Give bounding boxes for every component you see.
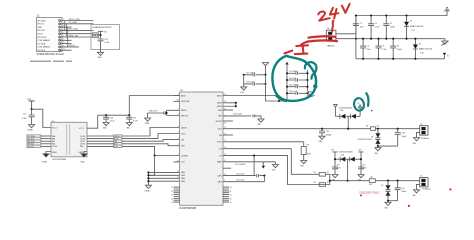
svg-text:9: 9	[178, 154, 179, 156]
svg-text:8: 8	[178, 126, 179, 128]
power symbol circled	[358, 103, 362, 116]
wire iso VCC2 to rail	[87, 115, 98, 128]
svg-text:5V0: 5V0	[331, 150, 334, 152]
wire DIN to DAC	[122, 140, 180, 142]
ground under C30	[319, 136, 325, 143]
wire left vertical to lower rail	[355, 39, 357, 59]
svg-text:R6: R6	[307, 145, 309, 147]
connector J3	[420, 176, 431, 191]
svg-text:C11 0.068uF: C11 0.068uF	[289, 85, 299, 87]
wire J1 pin1 net GPIO1_CNC	[61, 19, 94, 21]
svg-text:D1: D1	[410, 21, 412, 23]
node IOUT C18 tap	[397, 128, 399, 130]
DAC ground bus	[147, 171, 179, 185]
wire loop to cap bank	[266, 75, 288, 101]
node rail2 left	[355, 38, 357, 40]
svg-text:C28 0.1uF: C28 0.1uF	[149, 111, 159, 113]
svg-text:28: 28	[171, 198, 173, 200]
annotation red dot b	[449, 188, 451, 190]
svg-text:VCC2: VCC2	[79, 128, 84, 130]
wire HART row	[223, 162, 275, 169]
svg-text:CAP1: CAP1	[217, 174, 222, 177]
capacitor C14 between CAP1 CAP2	[223, 156, 265, 178]
svg-text:C17: C17	[23, 114, 26, 116]
wire J1 pin3 stub	[61, 26, 72, 28]
svg-text:32: 32	[230, 195, 232, 197]
svg-text:CS_GRD: CS_GRD	[69, 22, 78, 24]
capacitor C5 0.1uF	[376, 38, 387, 60]
ground top of C9 loop	[263, 63, 269, 75]
capacitor C11 0.068uF	[286, 85, 309, 89]
resistor R6 10.0k	[301, 142, 311, 161]
wire SDO to DAC	[122, 144, 180, 146]
svg-text:AVSS: AVSS	[217, 105, 222, 108]
svg-text:DAC8760IPWR: DAC8760IPWR	[180, 207, 197, 210]
svg-text:34: 34	[230, 202, 232, 204]
wire J3 pin2 to ground	[417, 184, 420, 189]
capacitor C4 10uF	[360, 38, 371, 60]
wire D8 to C18 bottom	[377, 145, 398, 147]
wire DAC AVDD right	[223, 96, 279, 102]
node IOUT TVS tap	[377, 128, 379, 130]
ground VSS under C29	[240, 87, 246, 94]
power arrow 5V0 cap bank	[285, 62, 288, 67]
annotation red dot c	[408, 205, 410, 207]
ground VSS3 under C28	[145, 118, 151, 125]
DAC NC pin numbers left	[171, 187, 173, 204]
svg-text:C29 0.1uF: C29 0.1uF	[246, 82, 255, 84]
svg-text:V1: V1	[447, 55, 449, 57]
wire IFB stub	[223, 134, 233, 136]
net label SPI SDI	[27, 143, 51, 146]
annotation teal circle around caps	[272, 56, 316, 101]
net label I2C SCL	[27, 137, 51, 140]
svg-text:0.1uF: 0.1uF	[363, 168, 367, 170]
node AVDD joins	[278, 100, 280, 102]
capacitor C26 0.1uF	[103, 115, 115, 122]
annotation teal tick	[366, 93, 368, 106]
digital isolator U3 ISO7842	[51, 121, 87, 161]
wire iso OUTA to labels	[87, 136, 114, 146]
svg-text:TBlkM2x1: TBlkM2x1	[327, 45, 335, 47]
svg-text:C4: C4	[367, 46, 369, 48]
capacitor C27 0.1uF	[126, 115, 138, 122]
ground DGND iso left	[42, 152, 51, 164]
svg-text:33: 33	[230, 198, 232, 200]
svg-text:27: 27	[171, 195, 173, 197]
connector J1	[37, 15, 66, 56]
svg-text:GND: GND	[181, 172, 186, 174]
svg-text:J3: J3	[420, 176, 422, 178]
connector J4 24V terminal block	[326, 28, 336, 47]
capacitor C24 on left rail	[332, 165, 341, 175]
node output TVS tap	[387, 180, 389, 182]
svg-text:DVDD-EN: DVDD-EN	[181, 101, 190, 103]
svg-text:26: 26	[171, 191, 173, 193]
wire 5V0 to iso VCC1	[32, 109, 51, 127]
svg-text:5V0: 5V0	[104, 31, 107, 33]
svg-text:C21: C21	[104, 39, 107, 41]
power 5V0 left	[27, 99, 34, 109]
svg-text:VS5: VS5	[359, 150, 362, 152]
node merge	[329, 180, 331, 182]
svg-text:GND: GND	[98, 57, 103, 59]
svg-text:BOOST: BOOST	[216, 121, 223, 123]
svg-text:SPI2_RN5: SPI2_RN5	[69, 29, 79, 31]
svg-text:SDO: SDO	[181, 146, 185, 148]
ghost annotation row	[30, 61, 72, 63]
diode D1 SMBJ7.5A	[404, 14, 424, 39]
svg-text:CTRL MEAS5: CTRL MEAS5	[37, 39, 50, 42]
wire cap bank left rail	[286, 67, 288, 101]
svg-text:5: 5	[178, 144, 179, 146]
wire -VS to R7 line	[223, 156, 330, 185]
svg-text:18: 18	[224, 122, 226, 124]
resistor R4 100	[366, 125, 379, 130]
svg-text:C6: C6	[397, 46, 399, 48]
capacitor C3 10uF	[353, 14, 364, 38]
wire BOOST stub	[223, 120, 233, 122]
DAC NC stubs left	[174, 187, 180, 202]
wire 24V rail top	[356, 11, 447, 16]
svg-text:SMBJ7.5A-13-F: SMBJ7.5A-13-F	[410, 25, 424, 28]
svg-text:PCBblocks: PCBblocks	[423, 189, 431, 191]
svg-text:15: 15	[327, 172, 329, 174]
ground DGND left	[27, 125, 34, 132]
svg-text:C14 0.1uF: C14 0.1uF	[236, 173, 245, 175]
svg-text:0.1uF: 0.1uF	[337, 168, 341, 170]
svg-text:GND: GND	[181, 181, 186, 183]
svg-text:GND: GND	[181, 178, 186, 180]
node filter output	[99, 34, 101, 36]
wire LATCH to DAC	[122, 128, 180, 137]
ground under D9	[385, 201, 392, 210]
svg-text:I2C SCK: I2C SCK	[37, 50, 45, 52]
DAC left pin stubs	[174, 96, 180, 162]
wire lower rail	[356, 58, 445, 60]
svg-text:100pF: 100pF	[401, 191, 406, 193]
svg-text:GND1: GND1	[52, 152, 57, 154]
DAC pin numbers right	[224, 94, 226, 182]
capacitor C17 0.1uF	[22, 109, 35, 124]
svg-text:SUPER MINI DEC Pinout2: SUPER MINI DEC Pinout2	[37, 53, 65, 56]
svg-text:C10 0.1uF: C10 0.1uF	[289, 91, 297, 93]
svg-text:SPI CLK: SPI CLK	[37, 30, 45, 32]
wire J1 pin4 net SPI2_RN5	[61, 29, 94, 31]
svg-text:BLNFMNGM72RX1D: BLNFMNGM72RX1D	[93, 27, 113, 29]
svg-text:DGND: DGND	[42, 161, 48, 163]
ground below C26	[103, 123, 109, 130]
svg-text:C19: C19	[401, 188, 404, 190]
node -VS branch	[253, 155, 255, 157]
filter module FB1 BLNFMNGM72RX1D	[91, 25, 120, 50]
svg-text:D9: D9	[381, 185, 383, 187]
svg-text:10uF: 10uF	[360, 27, 364, 29]
wire AVSS pair	[223, 102, 237, 108]
svg-text:25: 25	[171, 187, 173, 189]
connector J2	[420, 124, 430, 140]
wire CLR pulldown	[148, 156, 154, 176]
ground DGND under bus	[145, 185, 152, 192]
svg-text:29: 29	[171, 202, 173, 204]
DAC right pin names	[216, 94, 223, 183]
wire GND stub	[223, 109, 233, 111]
protection diode pair D5 D6	[331, 150, 363, 182]
wire J1 pin10 stub	[61, 49, 72, 51]
svg-text:0.1uF: 0.1uF	[382, 49, 386, 51]
svg-text:C8 0.1uF: C8 0.1uF	[289, 78, 296, 80]
wire J1 pin9 net GPIO5	[61, 45, 80, 47]
capacitor C7 0.068uF	[286, 71, 309, 75]
wire cap bank right rail	[307, 70, 309, 91]
svg-text:0.1uF: 0.1uF	[375, 27, 379, 29]
capacitor C1 0.1uF	[368, 14, 379, 39]
svg-text:5V: 5V	[358, 103, 360, 105]
svg-text:SPI CS: SPI CS	[37, 24, 44, 26]
chassis ground cap bank	[306, 91, 315, 98]
capacitor C19 100pF	[395, 181, 406, 201]
wire J2 pin2 to ground	[417, 133, 420, 138]
wire AVDD rail	[98, 96, 180, 116]
svg-text:SMBJ7.5A-13-F: SMBJ7.5A-13-F	[419, 48, 433, 51]
capacitor C25 on right rail	[358, 165, 367, 175]
svg-text:30: 30	[230, 187, 232, 189]
net label SPI CLK	[27, 140, 51, 143]
diode D2 SMBJ7.5A	[413, 38, 433, 60]
svg-text:DGND: DGND	[27, 130, 33, 132]
svg-text:LATCH: LATCH	[181, 126, 187, 129]
svg-text:GND: GND	[37, 27, 42, 29]
svg-text:AVSS: AVSS	[217, 102, 222, 105]
node IOUT C30	[321, 128, 323, 130]
TVS diode D8 CDSOD323	[358, 129, 381, 146]
svg-text:49.9: 49.9	[369, 184, 372, 186]
wire J1 pin7 stub	[61, 39, 72, 41]
wire IOUT long	[223, 128, 420, 130]
svg-text:SPI VOUT: SPI VOUT	[37, 37, 47, 39]
svg-text:C27: C27	[133, 117, 136, 119]
svg-text:C12 0.068uF: C12 0.068uF	[235, 164, 246, 166]
svg-text:GND: GND	[181, 175, 186, 177]
svg-text:CDSOD4148-0805: CDSOD4148-0805	[339, 152, 353, 154]
annotation red 24V	[318, 4, 349, 21]
svg-text:REFOUT: REFOUT	[181, 115, 189, 117]
capacitor C21 0.1uF	[98, 35, 110, 52]
svg-text:0.1uF: 0.1uF	[104, 42, 110, 44]
svg-text:2: 2	[178, 94, 179, 96]
svg-text:R8: R8	[370, 177, 372, 179]
annotation red dot a	[360, 194, 362, 196]
svg-text:C30: C30	[326, 131, 329, 133]
svg-text:C9 0.068uF: C9 0.068uF	[246, 73, 256, 75]
ground HART	[272, 165, 279, 172]
svg-text:D2: D2	[419, 43, 421, 45]
svg-text:VSS3: VSS3	[145, 123, 149, 125]
svg-text:10uF: 10uF	[367, 49, 371, 51]
ground under R6	[300, 161, 307, 168]
wire CLR to DAC	[122, 146, 180, 155]
svg-text:SPI CS: SPI CS	[28, 146, 35, 148]
svg-text:C7 0.068uF: C7 0.068uF	[289, 71, 298, 73]
svg-text:J2: J2	[420, 124, 422, 126]
capacitor C8 0.1uF	[286, 78, 309, 82]
svg-text:C2: C2	[390, 23, 392, 25]
net label I2C SDA	[27, 135, 51, 138]
svg-text:15: 15	[327, 182, 329, 184]
annotation red underline strokes	[301, 36, 337, 45]
svg-text:C24: C24	[337, 165, 340, 167]
power 5V0 at filter	[98, 31, 107, 35]
capacitor C9 0.068uF	[243, 73, 267, 77]
svg-text:CDSOD323-T08LC: CDSOD323-T08LC	[358, 139, 373, 141]
annotation teal question mark	[305, 62, 317, 87]
wire J1 pin8 stub	[61, 43, 72, 45]
svg-text:VOUT: VOUT	[37, 34, 43, 36]
node CLR vertical	[154, 154, 156, 156]
svg-text:AVDD: AVDD	[181, 94, 187, 97]
svg-text:SPI CNS: SPI CNS	[37, 20, 46, 22]
svg-text:10.0k: 10.0k	[307, 153, 311, 155]
svg-text:CDSOD4148-0805: CDSOD4148-0805	[339, 107, 352, 109]
wire +VS horizontal	[223, 148, 291, 150]
svg-text:23: 23	[177, 100, 179, 102]
wire J1 pin6 net SPIN_CN5	[61, 35, 93, 37]
wire J4 pin2 into mid rail	[336, 38, 445, 40]
svg-text:REFIN: REFIN	[181, 110, 187, 112]
svg-text:PCBblocks: PCBblocks	[421, 138, 429, 140]
power arrow on lower rail	[443, 53, 449, 59]
svg-text:6: 6	[178, 138, 179, 140]
ground below C27	[126, 123, 132, 130]
wire VOUT	[223, 141, 304, 143]
DAC NC stubs right	[223, 187, 229, 202]
svg-text:CDSOD323-T08LC: CDSOD323-T08LC	[359, 192, 380, 195]
svg-text:ISO7842DWW: ISO7842DWW	[53, 159, 67, 161]
wire CAPA stub	[223, 167, 231, 169]
wire J4 pin1 to rail	[336, 16, 356, 34]
svg-text:100pF: 100pF	[390, 27, 395, 29]
svg-text:10: 10	[177, 160, 179, 162]
svg-text:0.1uF: 0.1uF	[22, 118, 28, 120]
DAC NC pin numbers right	[230, 187, 232, 204]
TVS diode D9 CDSOD323	[381, 181, 390, 201]
ground under C16	[257, 119, 264, 126]
DAC left pin names	[181, 94, 190, 183]
net label SPI CS	[27, 145, 51, 148]
capacitor C30 1000pF	[319, 129, 331, 137]
svg-text:D8: D8	[371, 136, 373, 138]
ground left rail	[332, 175, 338, 182]
svg-text:GND: GND	[81, 161, 86, 163]
wire J1 pin5 VOUT to filter	[61, 33, 93, 35]
annotation red ground mark	[285, 45, 309, 54]
capacitor C2 100pF	[383, 14, 394, 39]
node 5V0 junction	[31, 108, 33, 110]
node rail junctions	[105, 114, 107, 116]
DAC pin numbers left	[177, 94, 179, 179]
capacitor C6 100pF	[390, 38, 401, 60]
capacitor C28 0.1uF at REFIN	[148, 110, 180, 118]
wire J1 pin2 net CS_GRD	[61, 22, 94, 24]
wire D9 to C19 bottom	[387, 200, 398, 202]
annotation teal small circle	[353, 97, 365, 111]
svg-text:C5: C5	[382, 46, 384, 48]
chassis ground mid rail right	[441, 39, 448, 46]
svg-text:100pF: 100pF	[401, 136, 406, 138]
wire +VS to R5 line	[291, 149, 330, 181]
capacitor C10 0.1uF	[286, 91, 309, 95]
capacitor C15 on CAP2	[223, 176, 264, 182]
svg-text:100pF: 100pF	[397, 49, 402, 51]
resistor R8 49.9	[369, 177, 375, 186]
svg-text:VSS: VSS	[240, 92, 243, 94]
svg-text:R7: R7	[314, 182, 316, 184]
svg-text:R4: R4	[366, 125, 368, 127]
svg-text:C26: C26	[110, 117, 113, 119]
wire clamp tap to IOUT	[347, 116, 349, 129]
svg-text:VCC1: VCC1	[52, 127, 57, 129]
svg-text:31: 31	[230, 191, 232, 193]
wire SCLK to DAC	[122, 134, 180, 139]
resistor R7 15	[314, 182, 329, 186]
resistor R5 15	[314, 172, 329, 176]
ground J3	[412, 190, 419, 197]
svg-text:C25: C25	[363, 165, 366, 167]
ground right rail	[358, 175, 364, 182]
capacitor C29 0.1uF	[244, 75, 267, 87]
svg-text:DGND: DGND	[145, 190, 151, 192]
ground GND iso right	[81, 152, 88, 164]
net label boxes right of iso	[114, 135, 122, 149]
svg-text:100: 100	[376, 125, 379, 127]
svg-text:GND: GND	[218, 110, 223, 112]
ground under D8	[374, 146, 381, 155]
DAC U2 DAC8760IPWR	[180, 90, 224, 210]
svg-text:I2C SDA: I2C SDA	[37, 42, 45, 45]
ground J2	[413, 138, 420, 145]
svg-text:C18: C18	[401, 133, 404, 135]
svg-text:R5: R5	[314, 172, 316, 174]
svg-text:CLRSEL: CLRSEL	[181, 155, 188, 157]
ground below filter	[98, 52, 104, 59]
svg-text:7: 7	[178, 132, 179, 134]
svg-text:SCLK: SCLK	[181, 133, 186, 135]
node output C19 tap	[397, 180, 399, 182]
svg-text:1000pF: 1000pF	[326, 134, 332, 136]
svg-text:C1: C1	[375, 23, 377, 25]
svg-text:OUTE: OUTE	[52, 146, 58, 148]
svg-text:C3: C3	[360, 23, 362, 25]
svg-text:3: 3	[178, 109, 179, 111]
svg-text:C16 0.1uF: C16 0.1uF	[233, 114, 243, 116]
capacitor C16 0.1uF at CMP	[223, 114, 261, 119]
capacitor C18 100pF	[395, 129, 406, 146]
svg-text:C15 0.1uF: C15 0.1uF	[236, 180, 245, 182]
svg-text:4: 4	[178, 114, 179, 116]
svg-text:GPIO5: GPIO5	[69, 45, 76, 47]
svg-text:OUTA: OUTA	[80, 135, 86, 138]
wire J1 jog bus	[65, 21, 68, 47]
chassis ground top right	[444, 8, 450, 11]
svg-text:CAP2: CAP2	[217, 181, 222, 184]
wire output line to J3	[330, 180, 420, 182]
diode pair D3 D4 clamp	[334, 105, 361, 119]
svg-text:AVDD: AVDD	[217, 94, 223, 97]
svg-text:J4: J4	[327, 28, 329, 30]
svg-text:SPIN_CN5: SPIN_CN5	[69, 35, 80, 37]
svg-text:CTRL MEAS3: CTRL MEAS3	[37, 46, 50, 49]
annotation red squiggle	[332, 21, 333, 32]
